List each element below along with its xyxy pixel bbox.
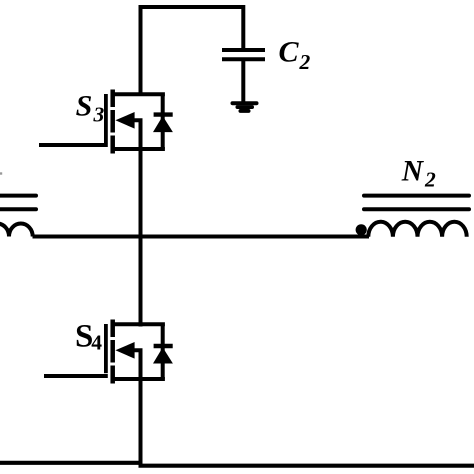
core line N1 lower — [0, 207, 36, 211]
winding N1 (left, partially visible) — [0, 224, 33, 237]
S4 channel top bar — [110, 320, 115, 338]
svg-text:C: C — [279, 36, 300, 69]
svg-text:N: N — [401, 155, 425, 187]
svg-text:S: S — [76, 89, 93, 122]
wire top bus from S3 drain to C2 — [141, 7, 244, 96]
winding N2 — [368, 222, 466, 237]
svg-text:2: 2 — [299, 50, 311, 74]
S3 channel middle bar — [110, 110, 115, 133]
S4 channel middle bar — [110, 340, 115, 363]
S3 source wire — [111, 147, 165, 151]
ground — [231, 101, 259, 113]
svg-text:2: 2 — [424, 168, 436, 192]
wire S3 source down to S4 drain (crosses middle bus) — [139, 147, 143, 327]
S3 channel top bar — [110, 90, 115, 108]
S3 body diode wire — [161, 94, 165, 149]
S4 channel bottom bar — [110, 366, 115, 384]
S4 gate bar — [104, 324, 108, 373]
S3 channel bottom bar — [110, 136, 115, 154]
wire bottom bus right — [139, 464, 474, 468]
svg-text:3: 3 — [93, 103, 105, 127]
S3 drain wire — [111, 92, 165, 96]
S3 gate lead wire — [39, 143, 108, 147]
svg-text:4: 4 — [91, 331, 102, 355]
polarity dot N2 — [356, 224, 367, 235]
S3 body wire — [133, 120, 141, 149]
S3 gate bar — [104, 94, 108, 143]
wire middle bus — [33, 235, 370, 239]
S4 gate lead wire — [44, 374, 108, 378]
S4 body wire — [133, 350, 141, 379]
core line N2 upper — [364, 194, 469, 198]
transistor S3 — [39, 90, 173, 154]
S4 body diode triangle — [153, 347, 173, 363]
label S3 — [76, 89, 105, 126]
S3 body diode cathode bar — [154, 112, 173, 116]
wire C2 to ground — [241, 61, 245, 102]
S3 body diode triangle — [153, 116, 173, 132]
wire S4 source down to bottom bus — [139, 377, 143, 466]
label C2 — [279, 36, 311, 75]
capacitor C2 — [222, 50, 265, 59]
transistor S4 — [44, 320, 173, 384]
S4 source wire — [111, 377, 165, 381]
label S4 — [75, 319, 102, 355]
S4 body arrow — [115, 342, 134, 359]
S4 body diode cathode bar — [154, 344, 173, 348]
S4 drain wire — [111, 322, 165, 326]
core line N1 upper — [0, 194, 36, 198]
label N1 remnant mark — [0, 172, 2, 174]
label N2 — [401, 155, 436, 191]
S4 body diode wire — [161, 324, 165, 379]
core line N2 lower — [364, 207, 469, 211]
wire bottom bus left — [0, 461, 143, 465]
S3 body arrow — [115, 112, 134, 129]
